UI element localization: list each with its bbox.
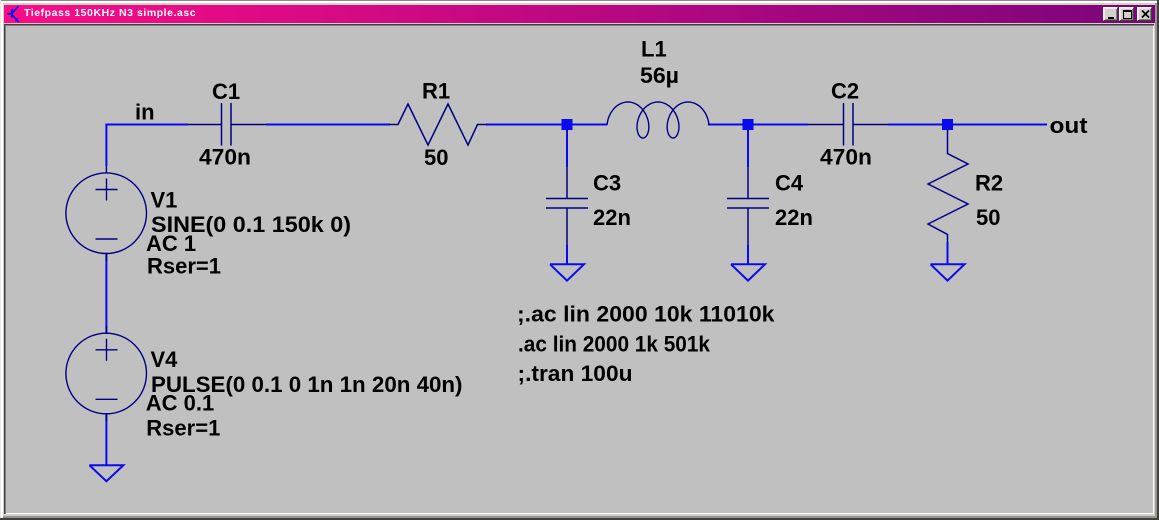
title text <box>24 7 196 20</box>
svg-text:.ac lin 2000 1k 501k: .ac lin 2000 1k 501k <box>518 332 711 357</box>
inductor L1 <box>607 102 709 138</box>
svg-text:V1: V1 <box>151 188 178 213</box>
wire: R1 to L1 through node N1 <box>486 124 607 126</box>
window outer frame right edge <box>1157 0 1159 520</box>
svg-text:AC 0.1: AC 0.1 <box>146 391 214 416</box>
svg-text:C2: C2 <box>831 79 859 104</box>
close button <box>1137 7 1153 21</box>
ground flag at V4 <box>89 465 123 481</box>
svg-text:out: out <box>1050 113 1089 138</box>
wire: L1 to C2 through node N2 <box>708 124 808 126</box>
svg-text:in: in <box>135 100 155 125</box>
ground flag at C3 <box>550 264 584 280</box>
svg-text:AC 1: AC 1 <box>146 231 196 256</box>
capacitor C3 <box>546 167 588 245</box>
svg-text:C1: C1 <box>212 79 240 104</box>
title bar gradient <box>4 5 1155 23</box>
svg-text:R2: R2 <box>975 171 1003 196</box>
wire: C3 to ground <box>566 245 568 264</box>
capacitor C2 <box>808 103 888 146</box>
svg-text:Rser=1: Rser=1 <box>146 416 220 441</box>
svg-text:;.tran 100u: ;.tran 100u <box>518 361 633 386</box>
resistor R1 <box>389 104 487 145</box>
wire: node N2 down to C4 <box>747 128 749 167</box>
wire: C2 to out net <box>888 124 1047 126</box>
wire: in net horizontal <box>105 124 188 126</box>
svg-text:L1: L1 <box>641 37 667 62</box>
wire: C1 to R1 <box>266 124 390 126</box>
wire: V1 minus to V4 plus <box>105 253 107 334</box>
svg-text:C4: C4 <box>775 171 804 196</box>
titlebar LTspice app icon (transistor) <box>5 5 24 24</box>
wire: node N1 down to C3 <box>566 128 568 167</box>
svg-text:R1: R1 <box>422 79 450 104</box>
svg-text:470n: 470n <box>199 145 251 170</box>
svg-text:Rser=1: Rser=1 <box>147 254 221 279</box>
ground flag at R2 <box>931 264 965 280</box>
junction node N2 <box>743 119 754 130</box>
window outer frame top edge <box>0 0 1159 1</box>
svg-text:56µ: 56µ <box>640 63 679 88</box>
junction node N3 (out) <box>942 119 953 130</box>
capacitor C1 <box>188 103 266 146</box>
svg-text:C3: C3 <box>593 171 621 196</box>
window outer frame bottom edge <box>0 518 1159 520</box>
resistor R2 <box>928 129 968 242</box>
voltage source V1 <box>66 166 147 261</box>
svg-text:470n: 470n <box>820 145 872 170</box>
svg-text:;.ac lin 2000 10k 11010k: ;.ac lin 2000 10k 11010k <box>517 302 775 327</box>
wire: V4 minus to ground <box>105 413 107 465</box>
minimize button <box>1103 7 1118 21</box>
svg-text:22n: 22n <box>593 205 631 230</box>
window outer frame left edge <box>0 0 1 520</box>
wire: R2 to ground <box>947 242 949 264</box>
capacitor C4 <box>727 167 769 245</box>
svg-text:50: 50 <box>424 145 448 170</box>
maximize button <box>1119 7 1135 21</box>
svg-text:50: 50 <box>976 205 1000 230</box>
wire: C4 to ground <box>747 245 749 264</box>
svg-text:V4: V4 <box>151 347 179 372</box>
junction node N1 <box>562 119 573 130</box>
svg-text:22n: 22n <box>775 205 813 230</box>
voltage source V4 <box>66 326 147 421</box>
wire: in net vertical down to V1 <box>105 124 107 167</box>
ground flag at C4 <box>731 264 765 280</box>
